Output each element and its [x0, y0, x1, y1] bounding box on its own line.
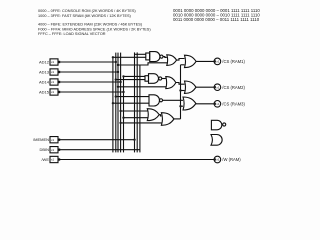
memory map text block — [38, 9, 151, 36]
wire OR2b lower input — [118, 86, 166, 88]
bus vertical va3 — [117, 53, 119, 153]
or gate U3C — [183, 97, 196, 110]
distribution vertical — [180, 65, 182, 119]
junction dot va3/OR2b — [117, 86, 119, 88]
svg-text:x1: x1 — [216, 85, 220, 89]
svg-text:x1: x1 — [216, 60, 220, 64]
wire AD13 — [58, 71, 118, 73]
svg-text:FFFC – FFFE: LOAD SIGNAL VECTO: FFFC – FFFE: LOAD SIGNAL VECTOR — [38, 32, 106, 36]
junction dot AD15/va5 — [122, 91, 124, 93]
wire OR4b out to distribution — [174, 118, 181, 120]
output port /CS (RAM2) — [214, 84, 246, 91]
bus vertical va2 — [115, 53, 117, 153]
wire OR2a out jog — [177, 59, 185, 61]
bus vertical va1 — [112, 57, 114, 152]
svg-text:1000 – 3FFE: FAST SRAM (6K WOR: 1000 – 3FFE: FAST SRAM (6K WORDS / 12K B… — [38, 14, 132, 18]
svg-text:AD14: AD14 — [39, 80, 50, 85]
svg-text:x1: x1 — [51, 60, 55, 64]
wire OR4b lower input — [121, 122, 162, 124]
junction dot AD12/va2 — [115, 61, 117, 63]
port AD14 — [39, 79, 60, 85]
wire OR3a out — [196, 60, 214, 62]
svg-text:x1: x1 — [216, 158, 220, 162]
wire OR2b out jog — [176, 83, 185, 85]
wire OR4a out jog — [159, 115, 161, 116]
wire NAND1 input B — [113, 56, 146, 58]
or gate U3B — [185, 81, 197, 93]
wire NAND2 out — [162, 78, 166, 80]
nand gate U1A — [146, 52, 163, 62]
bus vertical vb2 — [136, 52, 138, 152]
svg-text:0011 0000 0000 0000 – 0011 111: 0011 0000 0000 0000 – 0011 1111 1111 111… — [173, 17, 260, 22]
junction dot dist/OR3b — [179, 89, 181, 91]
output port /CS (RAM3) — [214, 101, 246, 108]
svg-text:x1: x1 — [51, 70, 55, 74]
svg-text:AD12: AD12 — [39, 60, 50, 65]
wire NAND3 input A — [116, 96, 149, 98]
wire DBIN — [58, 149, 140, 151]
wire OR4a input B — [124, 117, 148, 119]
svg-text:x1: x1 — [51, 148, 55, 152]
svg-text:0000 – 0FFE: CONSOLE ROM (2K W: 0000 – 0FFE: CONSOLE ROM (2K WORDS / 4K … — [38, 9, 136, 13]
junction dot va5/NAND2 — [122, 75, 124, 77]
or gate U3A — [185, 55, 197, 67]
output port /CS (RAM1) — [214, 58, 246, 65]
junction dot AD14/va4 — [119, 81, 121, 83]
junction dot va4/OR4b — [119, 122, 121, 124]
junction dot va2/NAND2 — [115, 78, 117, 80]
or gate U4A — [147, 109, 159, 121]
junction dot vb1//MEMEN — [133, 139, 135, 141]
svg-text:x1: x1 — [51, 80, 55, 84]
wire OR3c out — [196, 103, 214, 105]
junction dot va2/NAND3 — [115, 95, 117, 97]
wire OR2a lower input — [118, 63, 167, 65]
spare nand gate — [211, 120, 225, 130]
svg-text:x1: x1 — [51, 138, 55, 142]
wire NAND1 out — [163, 56, 167, 59]
port /WE — [41, 156, 60, 162]
bus vertical va5 — [123, 76, 125, 152]
junction dot va1/NAND3 — [112, 102, 114, 104]
svg-text:/CS (RAM2): /CS (RAM2) — [222, 85, 245, 90]
svg-text:DBIN: DBIN — [39, 147, 49, 152]
bus vertical vb3 — [139, 65, 141, 152]
junction dot va1 top — [112, 56, 114, 58]
svg-text:/CS (RAM1): /CS (RAM1) — [222, 59, 245, 64]
junction dot va3/OR2a — [117, 64, 119, 66]
junction dot va4/OR4a — [119, 110, 121, 112]
svg-text:4000 – FBFE: EXTENDED RAM (23K: 4000 – FBFE: EXTENDED RAM (23K WORDS / 4… — [38, 23, 143, 27]
binary range text block — [173, 8, 260, 22]
svg-text:x1: x1 — [51, 90, 55, 94]
spare or gate — [211, 135, 222, 146]
junction dot AD13/va3 — [117, 71, 119, 73]
port AD13 — [39, 69, 60, 75]
svg-text:F000 – FFFA: MMIO ADDRESS SPAC: F000 – FFFA: MMIO ADDRESS SPACE (1K WORD… — [38, 27, 151, 31]
bus vertical vb1 — [134, 52, 136, 152]
port /MEMEN — [33, 137, 60, 143]
wire OR3a lower input — [181, 64, 185, 66]
output port /W (RAM) — [214, 156, 242, 163]
wire AD12 — [58, 61, 116, 63]
bus vertical va4 — [120, 53, 122, 153]
wire OR3b out — [196, 86, 214, 88]
svg-text:/WE: /WE — [41, 157, 49, 162]
wire /WE to /W(RAM) — [58, 159, 214, 161]
or gate U4B — [161, 113, 174, 126]
nand gate U1C — [149, 95, 163, 106]
wire AD15 — [58, 91, 124, 93]
svg-text:/MEMEN: /MEMEN — [33, 137, 49, 142]
svg-text:x1: x1 — [216, 102, 220, 106]
wire OR3c lower input — [181, 105, 184, 107]
wire NAND2 input B — [116, 79, 145, 81]
svg-text:/W (RAM): /W (RAM) — [222, 157, 241, 162]
svg-text:AD15: AD15 — [39, 90, 50, 95]
junction dot dist/OR3c — [179, 105, 181, 107]
wire /MEMEN — [58, 139, 135, 141]
svg-text:AD13: AD13 — [39, 70, 50, 75]
or gate U2A — [167, 55, 177, 66]
nand gate U1B — [145, 74, 162, 84]
or gate U2B — [166, 77, 176, 89]
junction dot va5/OR4a — [122, 117, 124, 119]
port AD15 — [39, 89, 60, 95]
svg-text:x1: x1 — [51, 158, 55, 162]
svg-text:/CS (RAM3): /CS (RAM3) — [222, 101, 245, 106]
wire AD14 — [58, 81, 121, 83]
port AD12 — [39, 59, 60, 65]
wire NAND3 input B — [113, 102, 149, 104]
port DBIN — [39, 147, 60, 153]
wire OR4a input A — [121, 110, 148, 112]
wire NAND1 input A — [135, 53, 147, 55]
wire NAND2 input A — [124, 75, 146, 77]
wire OR3b lower input — [181, 90, 185, 92]
wire NAND3 out — [163, 99, 183, 101]
